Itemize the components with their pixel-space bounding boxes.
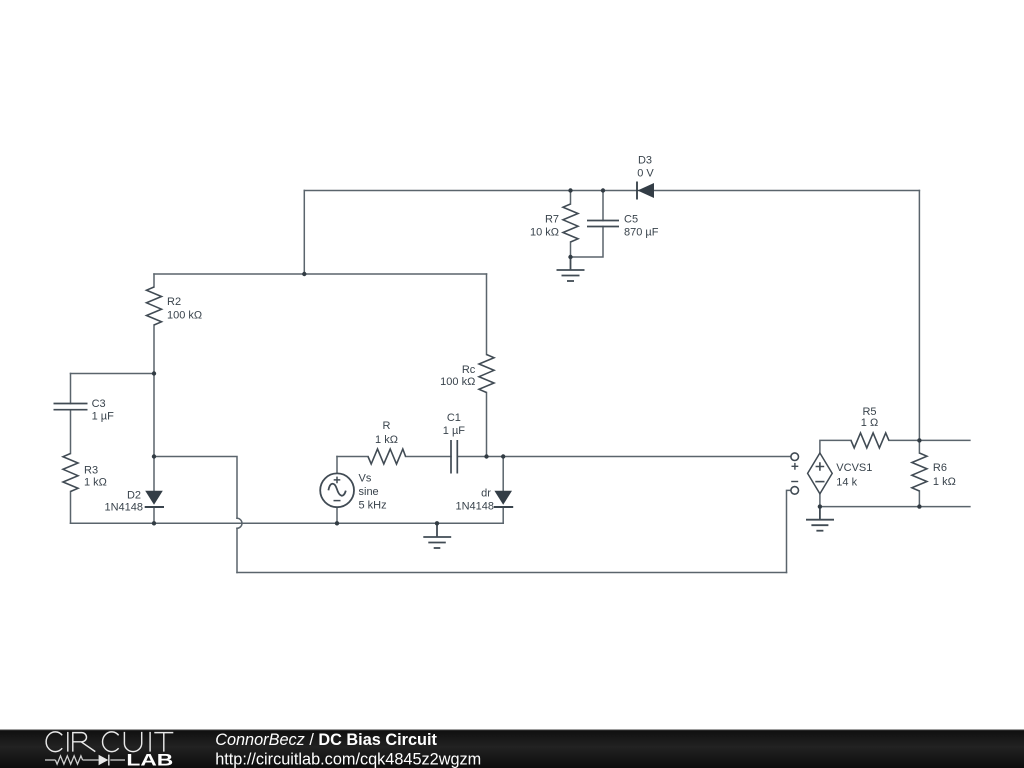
wire vertical from top net down to node (303, 191, 305, 275)
logo squiggle resistor-diode (45, 755, 125, 766)
svg-text:R3: R3 (84, 465, 98, 477)
svg-text:sine: sine (359, 486, 379, 498)
junction R6 bottom net (917, 504, 921, 508)
wire second horizontal net (154, 273, 487, 275)
svg-text:1 µF: 1 µF (92, 411, 115, 423)
svg-text:D3: D3 (638, 155, 652, 167)
wire right rail vertical (918, 191, 920, 441)
svg-text:R: R (383, 420, 391, 432)
svg-text:R2: R2 (167, 296, 181, 308)
wire dr stubs (502, 457, 504, 524)
ground at Vs (423, 523, 451, 548)
resistor R (368, 449, 406, 464)
wire R2 branch vertical (153, 274, 155, 523)
svg-text:1N4148: 1N4148 (455, 501, 494, 513)
wire bottom net horizontal (71, 522, 504, 524)
junction signal net / D2 (152, 454, 156, 458)
svg-text:R7: R7 (545, 214, 559, 226)
wire C3 top horizontal (71, 373, 155, 375)
junction bottom net / D2 (152, 521, 156, 525)
junction top net / R2 column (302, 272, 306, 276)
svg-text:1 Ω: 1 Ω (861, 417, 878, 429)
ground at VCVS1 (806, 507, 834, 531)
junction bottom net / ground (435, 521, 439, 525)
svg-text:870 µF: 870 µF (624, 227, 659, 239)
svg-text:1N4148: 1N4148 (104, 502, 143, 514)
wire bottom right net (820, 506, 970, 508)
svg-text:1 µF: 1 µF (443, 425, 466, 437)
resistor R3 (63, 454, 78, 492)
diode D3 (637, 182, 654, 200)
svg-text:5 kHz: 5 kHz (359, 500, 387, 512)
svg-text:ConnorBecz / DC Bias Circuit: ConnorBecz / DC Bias Circuit (215, 731, 437, 749)
resistor Rc (479, 355, 494, 393)
svg-text:C1: C1 (447, 412, 461, 424)
resistor R6 (912, 453, 927, 491)
svg-text:LAB: LAB (126, 751, 173, 768)
svg-text:D2: D2 (127, 490, 141, 502)
wire VCVS top to R5 (820, 440, 970, 453)
svg-text:Vs: Vs (359, 473, 372, 485)
svg-text:0 V: 0 V (637, 168, 654, 180)
footer bar (0, 730, 1024, 768)
diode dr (494, 491, 513, 507)
junction C3 wire / R2 column (152, 371, 156, 375)
svg-text:dr: dr (481, 487, 491, 499)
svg-text:1 kΩ: 1 kΩ (84, 476, 107, 488)
resistor R5 (851, 433, 889, 448)
controlled source VCVS1 (808, 453, 833, 494)
terminal plus (791, 453, 799, 470)
junction R5 / R6 / right rail (917, 438, 921, 442)
junction bottom net / Vs (335, 521, 339, 525)
wire hop over bottom net (237, 518, 242, 528)
svg-text:10 kΩ: 10 kΩ (530, 227, 559, 239)
junction top net / R7 (568, 188, 572, 192)
junction signal net / dr (501, 454, 505, 458)
junction signal net / Rc (484, 454, 488, 458)
capacitor C5 (587, 221, 619, 227)
voltage source Vs (320, 473, 354, 507)
svg-text:100 kΩ: 100 kΩ (167, 310, 202, 322)
svg-text:R5: R5 (862, 406, 876, 418)
svg-text:VCVS1: VCVS1 (836, 462, 872, 474)
terminal minus (791, 482, 799, 495)
junction top net / C5 (601, 188, 605, 192)
capacitor C3 (54, 404, 88, 410)
svg-text:100 kΩ: 100 kΩ (440, 376, 475, 388)
wire Rc branch vertical (486, 274, 488, 457)
ground at R7/C5 (557, 257, 585, 281)
resistor R7 (563, 204, 578, 242)
svg-text:C5: C5 (624, 214, 638, 226)
wire R7 stubs (570, 191, 572, 258)
svg-text:http://circuitlab.com/cqk4845z: http://circuitlab.com/cqk4845z2wgzm (215, 751, 481, 768)
logo CIRCUIT (46, 732, 173, 752)
wire link from signal node down (154, 457, 237, 573)
junction VCVS1 bottom net (818, 504, 822, 508)
wire VCVS bottom stub (819, 494, 821, 507)
junction R7-C5 ground node (568, 255, 572, 259)
wire C5 branch (571, 191, 604, 258)
diode D2 (145, 491, 164, 507)
wire to minus terminal (787, 490, 791, 572)
wire R6 stubs (918, 440, 920, 506)
wire signal net horizontal (337, 456, 791, 458)
wire Vs stubs (336, 457, 338, 524)
wire top horizontal net (304, 190, 919, 192)
svg-text:Rc: Rc (462, 364, 476, 376)
wire lower return net horizontal (237, 572, 787, 574)
svg-text:C3: C3 (92, 398, 106, 410)
svg-text:14 k: 14 k (836, 477, 857, 489)
capacitor C1 (451, 440, 457, 474)
resistor R2 (147, 287, 162, 325)
svg-text:1 kΩ: 1 kΩ (933, 476, 956, 488)
svg-text:R6: R6 (933, 462, 947, 474)
svg-text:1 kΩ: 1 kΩ (375, 434, 398, 446)
wire C3-R3 branch vertical (70, 374, 72, 524)
